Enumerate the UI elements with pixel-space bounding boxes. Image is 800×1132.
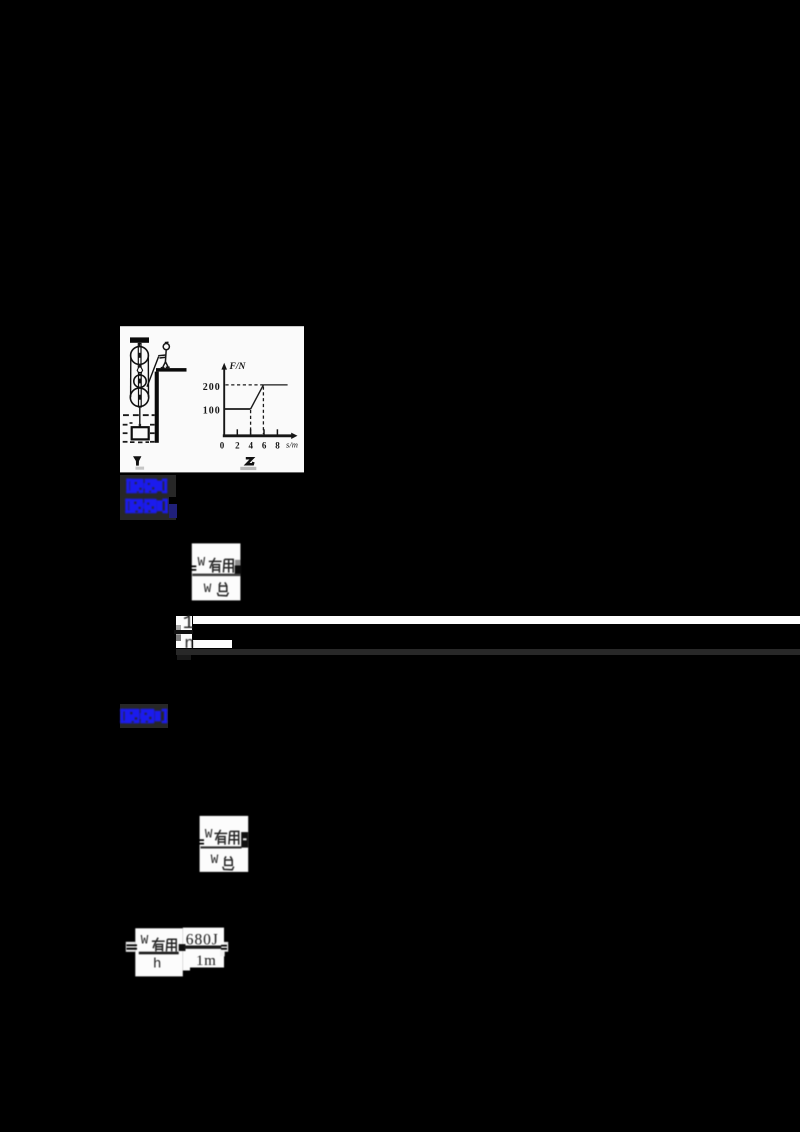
svg-text:W: W: [141, 933, 149, 947]
svg-text:W: W: [204, 582, 212, 596]
svg-text:h: h: [153, 956, 161, 972]
svg-text:F/N: F/N: [229, 362, 247, 372]
svg-text:2: 2: [235, 440, 240, 450]
svg-text:0: 0: [220, 440, 225, 450]
svg-text:s/m: s/m: [286, 439, 298, 449]
svg-text:4: 4: [249, 440, 254, 450]
svg-text:W: W: [211, 853, 219, 867]
svg-text:200: 200: [203, 382, 221, 393]
svg-text:6: 6: [262, 440, 267, 450]
svg-text:W: W: [205, 828, 213, 842]
svg-text:1m: 1m: [196, 953, 216, 969]
svg-text:680J: 680J: [186, 931, 219, 948]
svg-text:100: 100: [203, 406, 221, 417]
svg-text:8: 8: [275, 440, 280, 450]
svg-text:W: W: [198, 555, 206, 569]
